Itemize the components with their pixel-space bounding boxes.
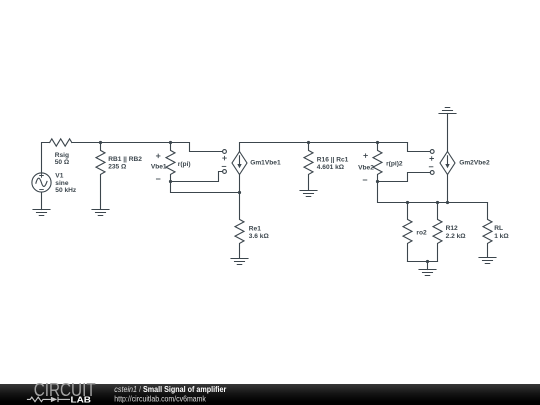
svg-text:Vbe1: Vbe1 [151,164,167,171]
footer url [114,394,206,403]
node ground join [426,260,429,263]
ground under R16 [300,191,317,197]
label Rsig [55,152,70,166]
node Re1 top [238,191,241,194]
label r(pi)2 [386,161,403,168]
svg-text:2.2 kΩ: 2.2 kΩ [446,233,467,240]
node ro2 top [406,201,409,204]
label R12 [446,225,467,240]
label Gm1Vbe1 [250,159,281,166]
label V1 [55,172,77,194]
node r(pi)2 top [376,141,379,144]
current source Gm1Vbe1 [232,152,247,175]
label RB1 [108,156,142,171]
wire Rsig to node B1 [72,142,171,144]
resistor RB1 || RB2 [96,143,105,210]
svg-text:R12: R12 [446,225,458,232]
node r(pi)1 top [169,141,172,144]
label Re1 [249,226,270,241]
minus sign Vbe2 [363,179,367,181]
minus sign terminal 1 [222,165,226,167]
wire Gm2 bottom to output rail [447,175,449,203]
voltage source V1 [32,173,51,192]
footer title [114,385,226,394]
wire emitter rail 1 [171,182,240,193]
resistor R16 || Rc1 [304,143,313,191]
wire output rail 2 [378,182,488,203]
resistor Re1 [235,193,244,259]
wire Gm1 bottom [239,175,241,193]
resistor RL [483,203,492,258]
ground under V1 [33,210,50,216]
svg-text:http://circuitlab.com/cv6mamk: http://circuitlab.com/cv6mamk [114,394,206,403]
terminal plus 1 [223,150,227,154]
ground under ro2 R12 [419,270,436,276]
wire node B1 to plus terminal 1 [171,143,223,152]
plus sign terminal 1 [223,156,227,160]
node RB junction [99,141,102,144]
resistor r(pi)2 [373,143,382,182]
svg-text:4.601 kΩ: 4.601 kΩ [317,164,345,171]
label R16 [317,156,349,171]
svg-text:Re1: Re1 [249,226,261,233]
svg-text:r(pi): r(pi) [178,161,191,168]
resistor Rsig [50,139,72,146]
resistor R12 [433,203,442,262]
node r(pi)1 bottom [169,180,172,183]
svg-text:r(pi)2: r(pi)2 [386,161,403,168]
wire minus terminal 2 to node E2 [378,173,431,182]
svg-text:50 Ω: 50 Ω [55,159,70,166]
label Vbe2 [358,165,374,172]
logo LAB text [71,395,92,405]
svg-text:ro2: ro2 [416,229,427,236]
svg-text:Vbe2: Vbe2 [358,165,374,172]
svg-text:3.6 kΩ: 3.6 kΩ [249,233,270,240]
wire V1 bottom [41,192,43,209]
svg-text:50 kHz: 50 kHz [55,187,77,194]
node R16 top [307,141,310,144]
svg-text:RB1 || RB2: RB1 || RB2 [108,156,142,163]
minus sign Vbe1 [156,178,160,180]
logo CIRCUIT text [34,380,96,400]
wire minus terminal 1 to node E1 [171,172,223,182]
svg-text:RL: RL [494,225,503,232]
svg-text:cstein1 / Small Signal of ampl: cstein1 / Small Signal of amplifier [114,385,226,394]
plus sign Vbe1 [156,154,160,158]
wire node B2 to plus terminal 2 [408,143,431,152]
wire Gm1 top to collector rail [240,143,408,152]
ground under Re1 [231,259,248,265]
svg-text:LAB: LAB [71,395,92,405]
inverted ground above Gm2 [439,108,456,114]
footer bar [0,384,540,405]
wire inverted ground to Gm2 [447,114,449,152]
svg-text:235 Ω: 235 Ω [108,164,127,171]
ground under RB1 [92,210,109,216]
label ro2 [416,229,427,236]
terminal minus 1 [223,170,227,174]
wire to shared ground [427,262,429,270]
wire ro2 R12 bottoms [408,261,438,263]
svg-text:sine: sine [55,180,69,187]
label RL [494,225,509,240]
svg-text:Rsig: Rsig [55,152,69,159]
svg-text:V1: V1 [55,172,63,179]
svg-text:1 kΩ: 1 kΩ [494,233,509,240]
minus sign terminal 2 [429,166,433,168]
ground under RL [479,258,496,264]
svg-text:Gm2Vbe2: Gm2Vbe2 [459,159,490,166]
label Gm2Vbe2 [459,159,490,166]
svg-text:R16 || Rc1: R16 || Rc1 [317,156,349,163]
wire V1 top to Rsig [42,143,50,173]
node r(pi)2 bottom [376,180,379,183]
terminal minus 2 [430,171,434,175]
terminal plus 2 [430,150,434,154]
node R12 top [436,201,439,204]
node Gm2 output [446,201,449,204]
resistor r(pi)1 [166,143,175,182]
resistor ro2 [403,203,412,262]
label Vbe1 [151,164,167,171]
plus sign Vbe2 [364,154,368,158]
svg-text:Gm1Vbe1: Gm1Vbe1 [250,159,281,166]
logo schematic symbol [27,397,70,402]
current source Gm2Vbe2 [440,152,455,175]
label r(pi)1 [178,161,191,168]
plus sign terminal 2 [430,157,434,161]
